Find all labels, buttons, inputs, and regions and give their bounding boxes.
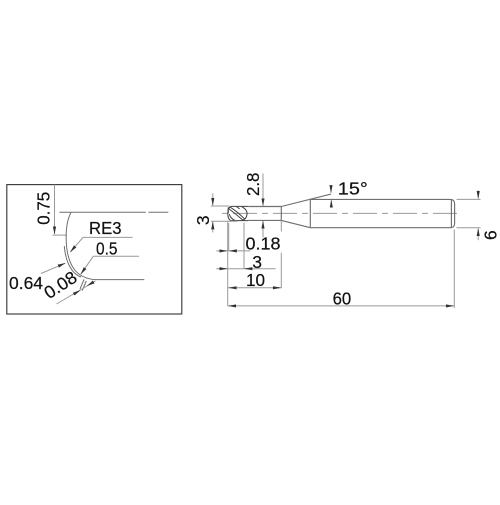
dimension 3 diameter left — [211, 193, 238, 232]
dimension 2.8 — [262, 174, 264, 238]
taper lines — [281, 194, 331, 228]
profile inner arc — [64, 246, 81, 277]
svg-text:6: 6 — [480, 230, 500, 240]
svg-text:RE3: RE3 — [89, 218, 122, 238]
cutter head flutes — [228, 207, 247, 221]
neck lines — [248, 207, 281, 221]
tip extension line — [227, 222, 229, 306]
shank end extension line — [453, 230, 455, 308]
dimension 60 — [228, 305, 454, 307]
profile outer arc — [66, 212, 94, 279]
profile extension ticks — [80, 280, 86, 291]
svg-text:0.18: 0.18 — [246, 234, 281, 254]
label RE3 leader — [70, 237, 132, 252]
label 0.64 leader — [41, 263, 65, 273]
dimension 15 degree arrows — [330, 187, 332, 207]
neck extension line lower — [280, 220, 282, 287]
cutter head outline — [228, 206, 249, 220]
svg-text:0.5: 0.5 — [96, 238, 118, 258]
flute length extension line — [243, 223, 245, 269]
svg-text:0.64: 0.64 — [9, 273, 43, 293]
label 0.5 leader — [81, 256, 139, 274]
dimension 6 — [457, 190, 481, 240]
svg-text:2.8: 2.8 — [243, 173, 263, 197]
shank outline — [310, 199, 454, 227]
svg-text:3: 3 — [252, 252, 262, 272]
svg-text:3: 3 — [193, 215, 213, 225]
top surface line — [59, 211, 168, 213]
svg-text:10: 10 — [246, 270, 265, 290]
centerline — [222, 212, 461, 214]
dimension 0.75 line — [53, 185, 68, 236]
svg-text:0.75: 0.75 — [33, 192, 53, 225]
dimension 10 — [228, 287, 282, 289]
dimension 0.08 leader — [57, 281, 96, 304]
dimension 3 flute length — [216, 268, 275, 270]
detail box border — [7, 185, 182, 314]
taper junction vertical — [309, 199, 311, 227]
bottom surface line — [95, 279, 145, 281]
svg-text:60: 60 — [333, 289, 352, 309]
neck end vertical — [280, 207, 282, 221]
tip second extension line — [228, 223, 230, 251]
svg-text:15°: 15° — [338, 179, 368, 199]
dimension 0.18 — [216, 250, 250, 252]
